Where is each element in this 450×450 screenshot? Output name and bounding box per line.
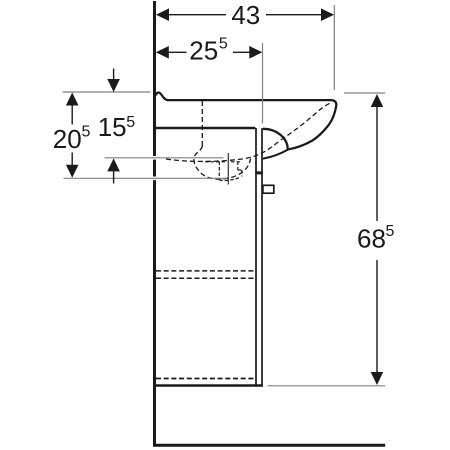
- cabinet front inner line: [255, 128, 257, 387]
- extension line basin tip (vertical): [333, 5, 335, 90]
- dimension 25.5 right arrow: [249, 46, 262, 59]
- basin top profile: [156, 93, 336, 150]
- svg-text:43: 43: [231, 0, 260, 30]
- hidden rim curve (dashed): [166, 103, 331, 161]
- dimension 25.5 line: [168, 51, 187, 53]
- dimension 43 line: [168, 14, 226, 16]
- hidden trap (dashed): [205, 162, 242, 181]
- svg-text:68: 68: [357, 224, 386, 254]
- dimension 43 left arrow: [156, 8, 169, 21]
- svg-text:5: 5: [82, 124, 91, 141]
- dimension 43 right arrow: [321, 8, 334, 21]
- svg-text:20: 20: [53, 124, 82, 154]
- svg-text:5: 5: [386, 223, 395, 240]
- extension line rim-top right: [344, 92, 385, 94]
- bottom dashed lines: [156, 378, 255, 380]
- dimension 15.5 top arrow: [113, 69, 115, 81]
- extension line trap bottom (20.5): [150, 177, 161, 181]
- wall: [153, 1, 156, 447]
- basin underside / cabinet top: [155, 127, 255, 129]
- drain centerline: [227, 153, 229, 185]
- cabinet handle tab: [263, 185, 274, 193]
- hidden bowl outline (dashed): [194, 146, 251, 179]
- basin front bulge upper arc: [263, 129, 288, 150]
- cabinet bottom: [154, 384, 263, 386]
- dimension 68.5 line + arrows: [376, 106, 378, 221]
- dimension 25.5 left arrow: [156, 46, 169, 59]
- hidden bowl back line (dashed): [201, 101, 203, 146]
- svg-text:15: 15: [98, 112, 127, 142]
- extension line basin underside (15.5): [150, 156, 161, 160]
- extension line rim-top left: [63, 91, 151, 93]
- shelf dashed lines: [156, 270, 255, 272]
- cabinet front outer line: [261, 128, 263, 387]
- extension line cabinet front (vertical): [262, 43, 264, 124]
- cabinet front crossbar: [255, 171, 263, 174]
- floor: [153, 444, 385, 447]
- svg-text:5: 5: [126, 114, 135, 131]
- basin front bulge lower edge: [263, 149, 288, 158]
- extension line cabinet bottom right: [268, 385, 386, 387]
- dimension 20.5 line + arrows: [71, 105, 73, 125]
- svg-text:5: 5: [219, 36, 228, 53]
- svg-text:25: 25: [189, 35, 218, 65]
- dimension 15.5 bottom arrow: [113, 171, 115, 184]
